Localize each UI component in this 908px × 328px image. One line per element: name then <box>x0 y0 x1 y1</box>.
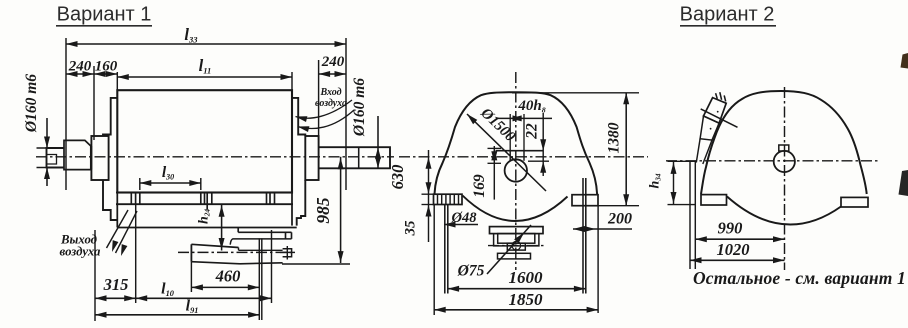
right foot plate <box>572 195 598 206</box>
pedestal flange step <box>237 228 239 233</box>
cropped glyph right <box>899 170 908 196</box>
dimension l33 <box>66 43 346 45</box>
housing dome outline <box>435 92 598 194</box>
vertical centerline variant 2 <box>784 87 786 270</box>
stator body <box>117 90 292 192</box>
svg-text:l33: l33 <box>184 25 198 45</box>
ext line left x95 <box>94 230 96 321</box>
foot slot tick <box>269 193 271 205</box>
dimension l30 <box>140 182 201 184</box>
ext l11 left <box>116 72 118 90</box>
ext top 1380 <box>512 92 639 94</box>
centerline shaft axis variant 1 <box>36 156 394 158</box>
ext 1850 right <box>597 206 599 313</box>
svg-text:990: 990 <box>718 219 743 238</box>
svg-text:1380: 1380 <box>606 122 623 153</box>
svg-text:l10: l10 <box>161 281 175 299</box>
foot slot tick <box>266 193 268 205</box>
foot slot tick <box>139 193 141 205</box>
tick h34 top <box>668 160 697 162</box>
bottom terminal detail bar <box>490 227 544 234</box>
shaft circle <box>505 159 527 181</box>
dimension 315 and l10 <box>95 297 272 299</box>
dimension l11 <box>117 76 292 78</box>
cone step <box>238 248 240 251</box>
foot plate hatch <box>437 194 439 204</box>
flange top <box>238 231 291 233</box>
dimension 1380 <box>625 93 627 206</box>
ext keyway left up <box>509 114 511 150</box>
air outlet arrow 1 <box>107 210 129 248</box>
dimension 240 right <box>319 73 346 75</box>
dimension 240 left <box>66 73 94 75</box>
flange bottom with fillet <box>230 239 291 245</box>
svg-text:200: 200 <box>607 211 632 228</box>
keyway left <box>509 151 511 161</box>
left foot bolt <box>444 205 446 294</box>
svg-text:l30: l30 <box>162 164 174 182</box>
housing bottom arc <box>463 196 568 222</box>
ext line l33 right <box>345 38 347 190</box>
key cap variant 2 <box>779 145 789 151</box>
dimension 22 <box>542 113 544 176</box>
bottom arc variant 2 <box>727 197 841 225</box>
right shaft step <box>358 147 360 168</box>
ext l30 right <box>200 178 202 190</box>
dimension 1020 <box>690 259 785 261</box>
right foot bolt <box>582 178 584 294</box>
pedestal centerline <box>178 251 294 253</box>
foot plate hatch <box>458 194 460 204</box>
dimension 1850 <box>434 309 598 311</box>
svg-text:985: 985 <box>313 197 333 224</box>
svg-text:Остальное - см. вариант 1: Остальное - см. вариант 1 <box>693 268 906 288</box>
frame foot rail <box>116 192 293 194</box>
svg-text:40h8: 40h8 <box>517 98 545 114</box>
pedestal shaft cone left end <box>190 244 192 261</box>
foot slot tick <box>274 193 276 205</box>
foot slot tick <box>200 193 202 205</box>
ext l11 right <box>291 72 293 90</box>
dimension l91 <box>95 314 260 316</box>
right foot variant 2 <box>841 197 868 207</box>
terminal box neck <box>700 116 719 140</box>
svg-text:240: 240 <box>68 59 92 75</box>
ext line 460 right <box>258 238 260 320</box>
svg-text:630: 630 <box>388 165 407 190</box>
ext line x135.7 <box>135 205 137 303</box>
detail tier3 <box>498 234 535 244</box>
shaft top line <box>239 249 283 251</box>
svg-text:l91: l91 <box>186 298 199 316</box>
dim O160 left arrows <box>44 137 50 149</box>
detail tier5 <box>498 253 531 259</box>
foot slot tick <box>204 193 206 205</box>
air outlet arrow 2 <box>116 211 138 253</box>
dimension 160 <box>94 73 117 75</box>
detail tier2 <box>494 234 539 246</box>
ext 460 left <box>190 262 192 292</box>
dimension 990 <box>695 238 784 240</box>
svg-text:35: 35 <box>403 220 419 237</box>
cone bottom <box>191 262 240 264</box>
left foot variant 2 <box>701 195 727 205</box>
svg-text:315: 315 <box>103 275 129 294</box>
svg-text:1020: 1020 <box>717 240 750 259</box>
terminal stud <box>716 93 718 99</box>
keyway top line <box>496 150 544 152</box>
dimension 169 <box>493 146 495 200</box>
left shaft end <box>47 148 65 168</box>
dimension 985 <box>340 157 342 263</box>
svg-text:22: 22 <box>524 123 541 140</box>
left bearing cap <box>91 136 108 180</box>
left shaft key section <box>64 140 91 169</box>
housing dome variant 2 <box>701 91 867 194</box>
dim O160 left <box>46 118 48 148</box>
dimension 1600 <box>448 288 586 290</box>
cone top <box>191 244 238 247</box>
horizontal centerline variant 2 <box>666 160 878 162</box>
ext line x94 <box>93 66 95 140</box>
terminal stud <box>724 95 726 101</box>
shaft circle variant 2 <box>774 151 795 172</box>
svg-text:Ø160 т6: Ø160 т6 <box>351 78 368 137</box>
svg-text:1600: 1600 <box>509 268 544 287</box>
bolt circle O75 <box>512 241 521 250</box>
svg-text:h34: h34 <box>648 173 663 188</box>
shaft end notch <box>283 249 292 257</box>
detail tier4 <box>507 243 525 250</box>
dimension 200 <box>573 228 632 230</box>
neck leg <box>703 140 712 164</box>
foot plate hatch <box>449 194 451 204</box>
left foot plate <box>434 194 463 204</box>
neck leg <box>696 139 700 163</box>
tick shaft top <box>37 147 57 149</box>
bolt dot <box>710 128 712 130</box>
svg-text:Ø75: Ø75 <box>457 263 485 280</box>
ext 1020 left <box>689 162 691 270</box>
svg-text:169: 169 <box>471 174 488 198</box>
svg-text:460: 460 <box>215 267 241 286</box>
body left edge lower <box>116 193 118 228</box>
dimension h24 <box>221 204 223 250</box>
svg-text:Вход: Вход <box>319 87 341 98</box>
base line <box>117 227 296 229</box>
foot plate hatch <box>453 194 455 204</box>
vertical centerline middle view <box>515 72 517 270</box>
ext l30 left <box>139 178 141 190</box>
svg-text:Вариант 2: Вариант 2 <box>680 4 775 26</box>
flange right edge <box>291 232 293 239</box>
svg-text:Ø160 т6: Ø160 т6 <box>23 74 40 133</box>
svg-text:l11: l11 <box>199 56 212 76</box>
ext 990 left <box>694 162 696 270</box>
dimension 460 <box>191 286 259 288</box>
tick h34 bottom <box>668 204 697 206</box>
foot slot tick <box>135 193 137 205</box>
ext line 240R <box>318 60 320 140</box>
svg-text:240: 240 <box>321 54 345 70</box>
body right edge lower <box>291 193 293 226</box>
right shaft <box>319 147 390 168</box>
horizontal centerline middle view <box>399 156 648 158</box>
tick circle top <box>528 160 549 162</box>
O75 leader <box>487 225 531 274</box>
tick shaft bottom <box>37 167 57 169</box>
svg-text:160: 160 <box>95 59 118 75</box>
right bearing cap <box>305 136 318 180</box>
ext 1850 left <box>433 205 435 316</box>
left bearing bracket steps <box>103 98 117 136</box>
ext line l10 right <box>271 230 273 303</box>
foot slot tick <box>211 193 213 205</box>
ext line l33 left <box>65 38 67 190</box>
terminal box <box>704 98 727 124</box>
terminal box strap <box>701 109 738 127</box>
svg-text:h24: h24 <box>197 209 212 224</box>
O1500 leader line <box>467 114 546 191</box>
ext line pair <box>261 238 263 320</box>
key right edge <box>90 146 92 170</box>
right bearing bracket steps <box>292 98 305 136</box>
flange inner edge <box>285 232 287 239</box>
dimension 40h8 <box>496 117 552 119</box>
svg-text:Вариант 1: Вариант 1 <box>57 4 152 26</box>
air inlet arrow 2 <box>298 110 355 129</box>
svg-text:Ø1500: Ø1500 <box>477 104 519 145</box>
foot plate hatch <box>445 194 447 204</box>
keyway right <box>523 151 525 161</box>
dimension h34 <box>673 161 675 204</box>
ext keyway right up <box>523 114 525 150</box>
foot plate hatch <box>441 194 443 204</box>
foot slot tick <box>130 193 132 205</box>
ext bottom 1380 <box>598 205 639 207</box>
foot slot tick long <box>206 193 208 210</box>
terminal stud <box>720 92 722 100</box>
base ext line 985 <box>282 263 350 265</box>
shaft center bore mark <box>47 155 57 165</box>
dimension 630 and 35 <box>428 150 430 242</box>
notch centerline tick <box>280 251 295 253</box>
dim O160 right <box>377 116 379 168</box>
cropped glyph top right <box>901 53 908 69</box>
svg-text:1850: 1850 <box>509 290 544 309</box>
bolt centerline <box>488 245 545 247</box>
bolt dot <box>717 111 719 113</box>
air inlet arrow 1 <box>296 100 353 118</box>
